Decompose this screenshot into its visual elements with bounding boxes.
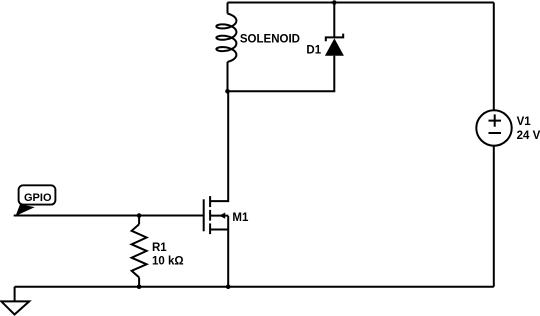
- wire resistor top stub: [138, 216, 140, 225]
- node junction top rail / diode: [332, 0, 337, 5]
- node junction source / bottom rail: [226, 284, 231, 289]
- inductor SOLENOID: [216, 14, 236, 62]
- V1 plus sign: [489, 114, 502, 126]
- flag GPIO pointer: [16, 204, 35, 216]
- M1 body arrow head: [219, 213, 225, 219]
- svg-text:GPIO: GPIO: [24, 192, 52, 204]
- svg-text:M1: M1: [232, 212, 249, 224]
- diode D1 zener cathode bar: [326, 34, 343, 42]
- wire diode branch top: [333, 3, 335, 38]
- wire resistor bottom stub: [138, 277, 140, 286]
- wire coil bottom stub: [227, 62, 229, 91]
- V1 minus sign: [489, 132, 502, 134]
- svg-text:R1: R1: [152, 242, 167, 254]
- wire ground stub: [14, 287, 16, 302]
- M1 channel bar middle: [209, 210, 211, 221]
- svg-text:D1: D1: [306, 44, 321, 56]
- node junction gate wire / resistor: [137, 213, 142, 218]
- svg-text:V1: V1: [517, 116, 532, 128]
- svg-text:SOLENOID: SOLENOID: [240, 33, 300, 45]
- wire diode branch bottom: [228, 56, 335, 92]
- transistor M1 gate bar: [203, 199, 205, 231]
- node junction coil bottom / drain: [225, 89, 230, 94]
- M1 source lead: [210, 216, 228, 287]
- wire V1 bottom to bottom rail: [493, 146, 495, 287]
- wire right rail down to V1: [493, 3, 495, 111]
- M1 body arrow line: [210, 215, 228, 217]
- node junction resistor / bottom rail: [137, 284, 142, 289]
- svg-text:10 kΩ: 10 kΩ: [152, 255, 184, 267]
- diode D1 anode triangle: [325, 38, 344, 55]
- M1 channel bar top: [209, 196, 211, 207]
- svg-text:24 V: 24 V: [517, 130, 540, 142]
- ground: [1, 301, 29, 314]
- wire bottom rail: [15, 286, 494, 288]
- wire top rail: [228, 2, 494, 4]
- flag GPIO box: [19, 185, 56, 204]
- wire coil top stub: [227, 3, 229, 14]
- wire gate net: [14, 215, 204, 217]
- M1 drain lead: [210, 91, 228, 201]
- M1 channel bar bottom: [209, 223, 211, 234]
- resistor R1: [132, 224, 147, 277]
- voltage source V1: [476, 110, 511, 145]
